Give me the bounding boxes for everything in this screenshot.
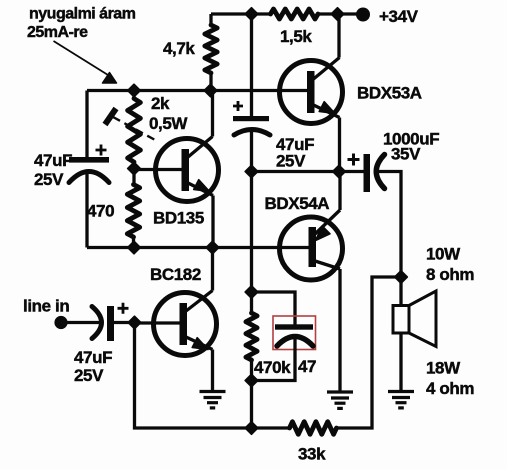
svg-text:25mA-re: 25mA-re [27, 24, 88, 41]
wire line in to cap [61, 321, 99, 324]
node 2k pot top [128, 84, 141, 97]
terminal +34V [356, 8, 370, 22]
svg-text:47: 47 [298, 357, 316, 376]
transistor Q2 BD135 [134, 137, 219, 202]
svg-text:0,5W: 0,5W [149, 114, 188, 133]
node 470 bottom [128, 241, 141, 254]
node 4,7k / BDX53A base junction [204, 84, 217, 97]
node speaker / feedback [395, 271, 408, 284]
wire bias line to BDX53A base [87, 89, 308, 92]
svg-text:35V: 35V [391, 145, 421, 164]
capacitor C 47 [275, 324, 313, 329]
capacitor C 47uF 25V (bias bypass) [69, 157, 109, 163]
wire 470k top lead [250, 292, 253, 313]
svg-text:33k: 33k [298, 445, 326, 464]
wire lower bias rail to BDX54A base [87, 246, 309, 249]
wire BDX53A emitter to output rail [338, 118, 341, 172]
svg-text:18W: 18W [426, 359, 461, 378]
wire 1000uF to speaker corner [378, 172, 401, 278]
resistor 1,5k [271, 9, 319, 19]
wire 470k bottom to feedback rail [250, 381, 253, 429]
svg-text:470: 470 [87, 202, 114, 221]
terminal line in [54, 316, 67, 329]
svg-text:nyugalmi áram: nyugalmi áram [29, 6, 136, 23]
speaker LS1 [393, 291, 436, 347]
resistor 4,7k [205, 25, 217, 73]
svg-text:47uF: 47uF [74, 348, 112, 367]
wire BD135 collector up to bias line [211, 91, 214, 137]
wire 2k top lead [132, 91, 135, 99]
wire 2k bottom lead [132, 162, 135, 169]
node BD135 emitter / BC182 collector junction [206, 241, 219, 254]
capacitor C 1000uF 35V output [364, 154, 371, 192]
wire 4,7k bottom lead [209, 73, 212, 91]
capacitor C 47uF 25V bootstrap [233, 116, 269, 121]
node 2k / 470 / BD135 base junction [128, 162, 141, 175]
wire BC182 collector up to rail [211, 248, 214, 291]
svg-text:1,5k: 1,5k [280, 27, 312, 46]
svg-text:470k: 470k [254, 358, 291, 377]
svg-text:line in: line in [23, 297, 69, 316]
wire left rail lower [85, 172, 88, 248]
ground BC182 emitter [200, 390, 226, 393]
node 470k top [245, 286, 258, 299]
node output / 1000uF [333, 165, 346, 178]
svg-text:4,7k: 4,7k [163, 39, 195, 58]
wire output node down to 470k (crosses bias rail) [250, 172, 253, 293]
wire node to speaker [399, 277, 402, 306]
ground speaker [388, 390, 414, 393]
wire top rail left segment [211, 12, 271, 15]
potentiometer 2k 0,5W [128, 99, 141, 163]
wire 33k to speaker corner [337, 277, 402, 428]
wire output rail [252, 170, 364, 173]
svg-text:47uF: 47uF [34, 151, 72, 170]
wire BDX53A collector to +34V [337, 14, 340, 58]
ground BDX54A collector [327, 390, 353, 393]
wire BC182 emitter to ground [211, 350, 214, 392]
wire bootstrap bottom [250, 131, 253, 172]
wire 47 branch bottom [252, 338, 296, 381]
capacitor C 47uF 25V input [92, 307, 102, 339]
svg-text:4 ohm: 4 ohm [426, 379, 474, 398]
svg-text:+34V: +34V [379, 7, 419, 26]
wire cap to BC182 base [114, 321, 135, 324]
svg-text:25V: 25V [276, 152, 306, 171]
wire top rail right segment to +34V [318, 12, 363, 15]
wire BD135 emitter down to rail [211, 196, 214, 248]
wire BDX54A collector to ground [338, 269, 341, 392]
highlight red box around 47 [273, 316, 316, 350]
wire speaker to ground [399, 333, 402, 391]
transistor Q1 BC182 [135, 291, 217, 356]
node feedback junction [245, 422, 258, 435]
wire BDX54A emitter to output rail [338, 172, 341, 211]
node top rail / bootstrap junction [245, 8, 258, 21]
svg-text:2k: 2k [151, 94, 170, 113]
transistor U3 BDX53A [280, 58, 343, 124]
svg-text:8 ohm: 8 ohm [426, 265, 474, 284]
node output / bootstrap [245, 165, 258, 178]
svg-text:25V: 25V [74, 366, 104, 385]
node +34V rail junction [331, 8, 344, 21]
transistor U4 BDX54A (PNP) [280, 210, 343, 280]
svg-text:BD135: BD135 [153, 209, 204, 228]
resistor 470 [127, 185, 139, 238]
wire 470k bottom lead [250, 360, 253, 381]
svg-text:BDX53A: BDX53A [357, 84, 422, 103]
annotation arrow to 2k pot [54, 41, 109, 75]
wire bootstrap top [250, 14, 253, 116]
wire 470 top lead [132, 169, 135, 185]
resistor 470k [246, 313, 257, 360]
wire base node down to bottom rail [135, 323, 290, 429]
svg-text:BC182: BC182 [150, 265, 201, 284]
svg-text:BDX54A: BDX54A [265, 194, 330, 213]
resistor 33k [290, 422, 337, 435]
wire 47 branch top [252, 292, 296, 325]
wire left rail upper [85, 91, 88, 158]
pot wiper arrow [105, 109, 116, 125]
node 470k bottom [245, 374, 258, 387]
svg-text:25V: 25V [34, 170, 64, 189]
wire 470 bottom lead [132, 237, 135, 248]
node BC182 base [128, 316, 141, 329]
wire 4,7k top lead [209, 14, 212, 25]
svg-text:10W: 10W [426, 245, 461, 264]
